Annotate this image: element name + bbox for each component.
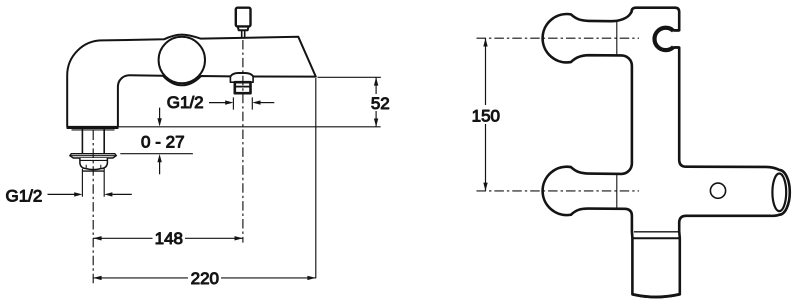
svg-text:148: 148	[155, 229, 183, 248]
G1/2 mid right arrow line	[252, 100, 260, 104]
dim 150 text	[470, 105, 503, 124]
diverter knob body	[236, 8, 251, 27]
hose outlet thread block G1/2	[235, 82, 251, 93]
notch nubs	[674, 31, 680, 48]
lip line lower	[632, 237, 680, 239]
dim 52 vertical line	[375, 77, 377, 127]
handle seam lines	[616, 21, 618, 208]
dim 0-27 up arrow	[159, 160, 161, 175]
spout mouth inner ring	[772, 174, 786, 212]
G1/2 bl right arrow	[104, 192, 112, 196]
leg bottom face line	[72, 129, 115, 131]
svg-text:220: 220	[191, 269, 219, 288]
faucet body outline (elbow spout)	[67, 35, 316, 127]
lip line upper	[634, 231, 678, 233]
spout tip extension line	[318, 76, 381, 78]
diverter knob stem	[242, 30, 245, 38]
dim 150 line	[485, 38, 487, 191]
faucet front outline	[543, 8, 790, 297]
nut top face line	[80, 159, 108, 161]
dim 220 text	[188, 270, 221, 286]
dim 148 text	[153, 230, 186, 246]
dim 148 arrows	[93, 236, 101, 240]
svg-text:150: 150	[472, 106, 500, 125]
top handle centerline	[477, 37, 640, 39]
svg-text:G1/2: G1/2	[167, 93, 204, 112]
svg-text:G1/2: G1/2	[6, 187, 43, 206]
mounting nut	[80, 158, 108, 170]
hose outlet dome sides	[230, 77, 253, 83]
diverter notch thick arc	[655, 28, 674, 50]
G1/2 mid extension ticks	[233, 97, 252, 109]
centerline of inlet leg	[92, 131, 94, 286]
spout hole	[710, 183, 725, 198]
deck reference line	[106, 126, 381, 128]
bottom tube bold bottom	[633, 294, 680, 297]
washer inner line	[70, 155, 117, 157]
dim 0-27 down arrow	[159, 108, 161, 122]
hose outlet thread inner line	[235, 86, 251, 88]
nut scallop cusps	[86, 165, 101, 169]
diverter knob neck	[238, 26, 249, 30]
svg-text:0 - 27: 0 - 27	[141, 133, 184, 152]
washer-top extension line	[120, 153, 193, 155]
dim 220 arrows	[93, 276, 101, 280]
tail collar line	[82, 170, 104, 172]
dim 52 arrows	[374, 77, 378, 85]
washer flange	[70, 154, 117, 158]
leg bottom bold edge	[67, 126, 119, 129]
inlet stem lines under leg	[82, 129, 104, 154]
centerline of hose outlet	[242, 40, 244, 243]
dim 220 line	[93, 277, 316, 279]
G1/2 bl left arrow	[48, 193, 75, 195]
bottom handle centerline	[477, 190, 640, 192]
handle disc	[159, 37, 205, 83]
dim 150 arrows	[483, 38, 487, 46]
dim 148 line	[93, 237, 243, 239]
threaded tail lines	[82, 169, 104, 197]
svg-text:52: 52	[371, 94, 390, 113]
dim 52 text	[369, 94, 392, 111]
G1/2 mid left arrow line	[209, 102, 226, 104]
dim 220 extension line from spout tip	[315, 78, 317, 278]
